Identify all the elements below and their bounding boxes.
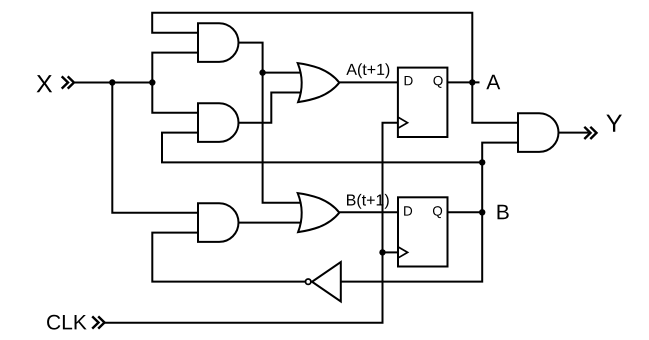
inverter triangle (312, 262, 341, 302)
wire inverter output to AND3 input B (152, 233, 305, 282)
wire DFF1 Q output to node A (447, 81, 479, 83)
chevron X input (62, 76, 68, 88)
junction dot X/AND1-AND2 (149, 79, 155, 85)
junction dot node B (479, 209, 485, 215)
label Y (606, 115, 622, 132)
and-gate AND2 (198, 103, 238, 142)
label A (486, 75, 500, 89)
or-gate OR2 (298, 193, 340, 232)
wire B feedback rail to AND2 input B (162, 133, 482, 163)
flip-flop U2 clock pin mark (399, 247, 408, 258)
label node B(t+1) (347, 194, 389, 209)
wire branch to OR1 input A (263, 72, 301, 74)
label X (37, 75, 53, 92)
label Q pin U2 (433, 206, 442, 218)
junction dot node A (469, 79, 475, 85)
flip-flop U1 clock pin mark (398, 117, 407, 128)
wire CLK trunk up to DFF1 clock (104, 123, 398, 323)
label node A(t+1) (346, 63, 389, 78)
wire AND2 output to OR1 input B (239, 93, 301, 123)
flip-flop U2 box (398, 197, 448, 266)
and-gate AND1 (198, 23, 238, 62)
wire CLK branch to DFF2 clock (383, 251, 399, 253)
and-gate AND-Y (518, 113, 559, 152)
junction dot AND1/OR1 (259, 69, 265, 75)
wire AND1 output down to OR2 input A (239, 43, 301, 203)
flip-flop U1 box (398, 68, 448, 137)
junction dot B feedback rail (479, 159, 485, 165)
or-gate OR1 (298, 63, 340, 102)
wire top rail from AND1 input A over to AND-Y input A (152, 13, 518, 123)
wire X input (75, 82, 153, 84)
and-gate AND3 (198, 203, 238, 242)
junction dot CLK (379, 249, 385, 255)
wire node B up to AND-Y input B and down to inverter input (341, 143, 518, 282)
wire OR2 output to DFF2 D input, node B(t+1) (339, 211, 398, 213)
chevron CLK input (92, 316, 98, 328)
label Q pin U1 (433, 76, 442, 88)
wire DFF2 Q output to node B (448, 211, 484, 213)
label D pin U2 (404, 206, 412, 215)
label B (498, 205, 509, 219)
inverter bubble (306, 279, 311, 284)
wire AND3 output to OR2 input B (239, 222, 301, 224)
wire OR1 output to DFF1 D input, node A(t+1) (339, 81, 398, 83)
label D pin U1 (405, 76, 413, 85)
wire X branch down to AND3 input A (112, 83, 198, 213)
chevron Y output (584, 127, 590, 139)
label CLK (47, 315, 87, 330)
wire AND-Y output to Y (559, 132, 589, 134)
junction dot X/AND3 (109, 79, 115, 85)
wire X branch to AND1 input B and AND2 input A (152, 53, 198, 113)
